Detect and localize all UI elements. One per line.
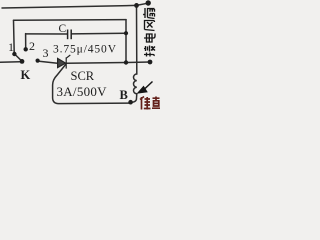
wire top terminal stub xyxy=(137,3,149,5)
wire switch wiper K to contact 1 xyxy=(15,55,21,61)
annotation 接电风扇 vertical text (hand-drawn glyphs, rotated) xyxy=(143,8,155,57)
glyph 接 (bottom) xyxy=(144,46,155,57)
svg-text:K: K xyxy=(21,68,31,82)
wire mains input to pole K xyxy=(0,61,20,64)
wire riser contact 2 xyxy=(25,34,27,48)
watermark stamp char right xyxy=(152,97,160,109)
inductor fan motor winding xyxy=(134,74,137,94)
SCR symbol triangle and cathode bar xyxy=(58,55,71,69)
watermark stamp char left xyxy=(140,97,151,110)
wire fan branch bottom to terminal B xyxy=(132,94,137,102)
svg-text:3.75μ/450V: 3.75μ/450V xyxy=(53,44,117,56)
paper background xyxy=(0,0,160,110)
svg-text:C: C xyxy=(59,23,67,35)
svg-text:2: 2 xyxy=(29,39,35,53)
wire riser contact 1 xyxy=(13,20,16,52)
wire SCR cathode to node D and fan terminal xyxy=(67,62,151,63)
node A capacitor junction xyxy=(124,31,128,35)
wire inner horizontal from contact 1 riser xyxy=(14,19,127,22)
svg-text:SCR: SCR xyxy=(71,69,95,83)
glyph 风 xyxy=(145,21,155,31)
terminal middle right xyxy=(148,60,153,65)
capacitor C plates xyxy=(68,30,72,40)
svg-text:3A/500V: 3A/500V xyxy=(57,84,108,99)
annotation arrow pointer xyxy=(137,82,153,94)
terminal B node xyxy=(128,100,133,105)
wire contact 3 to SCR anode xyxy=(39,61,58,63)
wire node A to node D vertical xyxy=(125,33,127,62)
terminal top right xyxy=(146,0,151,5)
node D anode bus junction xyxy=(124,60,128,64)
wire corner down to node A xyxy=(125,20,127,34)
node pole K xyxy=(20,59,25,64)
svg-text:1: 1 xyxy=(8,40,14,54)
wire fan branch vertical upper xyxy=(136,5,138,74)
node contact 2 xyxy=(24,47,28,51)
svg-text:3: 3 xyxy=(43,46,49,60)
node contact 1 xyxy=(12,52,16,56)
wire capacitor left lead xyxy=(26,33,67,35)
node top bus junction xyxy=(134,3,139,8)
node contact 3 xyxy=(36,59,40,63)
wire capacitor right lead xyxy=(72,32,127,35)
svg-text:B: B xyxy=(120,88,128,102)
wire SCR gate to bottom rail xyxy=(53,65,129,104)
glyph 扇 (top) xyxy=(143,8,154,19)
glyph 电 xyxy=(144,34,155,43)
wire top bus (mains lead to junction and fan terminal) xyxy=(2,5,137,8)
